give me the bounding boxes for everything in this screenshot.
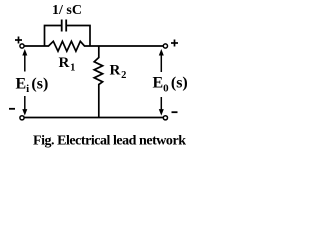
- svg-text:Ei(s): Ei(s): [16, 75, 49, 95]
- svg-text:1/ sC: 1/ sC: [52, 3, 82, 18]
- svg-text:E0(s): E0(s): [153, 75, 188, 95]
- svg-text:Fig. Electrical lead network: Fig. Electrical lead network: [33, 133, 186, 148]
